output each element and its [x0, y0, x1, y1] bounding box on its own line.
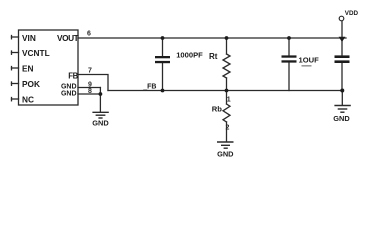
junction dot FB C1: [161, 89, 165, 93]
pin POK stub: [12, 82, 19, 85]
svg-text:8: 8: [88, 88, 92, 95]
pin VCNTL stub: [12, 51, 19, 54]
junction dot FB Rt-Rb: [225, 89, 229, 93]
wire GND pin 8: [78, 93, 100, 95]
tiny subtext under 10UF: [302, 65, 312, 67]
pin NC stub: [12, 98, 19, 101]
ground Rb: [217, 142, 234, 148]
wire GND bracket vertical: [99, 88, 101, 112]
svg-text:EN: EN: [22, 63, 34, 73]
capacitor C2 plates: [282, 55, 297, 57]
svg-text:1OUF: 1OUF: [299, 56, 320, 65]
resistor Rb: [223, 91, 230, 142]
ground right: [334, 106, 350, 113]
svg-text:VIN: VIN: [22, 33, 36, 43]
svg-text:1: 1: [227, 97, 231, 104]
svg-text:GND: GND: [333, 114, 350, 123]
op-amp U1 regulator body: [19, 30, 79, 105]
pin EN stub: [12, 67, 19, 70]
ground wire right: [341, 91, 343, 105]
svg-text:Rt: Rt: [209, 52, 218, 61]
svg-text:VOUT: VOUT: [57, 33, 79, 43]
svg-text:GND: GND: [61, 84, 77, 91]
VDD terminal wire: [341, 21, 343, 38]
svg-text:NC: NC: [22, 94, 34, 104]
capacitor C1 plates: [155, 56, 170, 58]
wire FB pin to FB rail: [78, 75, 108, 91]
wire VOUT top rail: [78, 37, 346, 39]
svg-text:GND: GND: [92, 118, 109, 127]
wire GND pin 9: [78, 87, 100, 89]
capacitor C1 1000PF leads: [162, 38, 164, 56]
svg-text:_FB: _FB: [142, 83, 156, 90]
svg-text:VCNTL: VCNTL: [22, 48, 50, 58]
junction dot GND pins: [99, 92, 103, 96]
junction arrow VDD: [339, 37, 346, 42]
wire FB rail: [108, 90, 342, 92]
svg-text:POK: POK: [22, 79, 40, 89]
ground IC: [92, 112, 108, 118]
svg-text:6: 6: [87, 30, 91, 37]
capacitor C3 plates: [335, 55, 350, 58]
pin VIN stub: [12, 36, 19, 39]
junction dot FB right: [340, 89, 344, 93]
capacitor C3 leads: [341, 38, 343, 56]
svg-text:1000PF: 1000PF: [176, 51, 203, 60]
svg-text:GND: GND: [217, 150, 234, 159]
junction dot top Rt: [225, 36, 229, 40]
junction dot top C2: [287, 36, 291, 40]
svg-text:GND: GND: [61, 91, 77, 98]
junction dot top C1: [161, 36, 165, 40]
svg-text:FB: FB: [68, 72, 78, 81]
svg-text:Rb: Rb: [212, 104, 222, 113]
svg-text:2: 2: [226, 125, 230, 132]
capacitor C2 10UF leads: [288, 38, 290, 56]
resistor Rt: [223, 38, 230, 91]
svg-text:7: 7: [88, 68, 92, 75]
svg-text:VDD: VDD: [345, 10, 359, 17]
VDD terminal circle: [339, 16, 344, 21]
